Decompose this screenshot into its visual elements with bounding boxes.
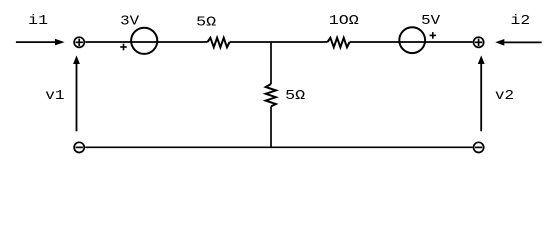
vertical wire lower segment — [270, 106, 272, 147]
svg-text:v2: v2 — [495, 88, 514, 104]
terminal bottom-right (-) — [474, 142, 484, 152]
svg-text:i1: i1 — [28, 13, 48, 29]
terminal top-right (+) — [474, 37, 484, 47]
wire bottom — [85, 146, 473, 148]
svg-text:3V: 3V — [120, 14, 140, 30]
voltage arrow v1 — [73, 55, 80, 131]
resistor R2 10ohm horizontal — [328, 38, 350, 48]
svg-text:1OΩ: 1OΩ — [329, 13, 359, 29]
voltage source V1 3V circle — [131, 28, 157, 54]
wire top: terminal TL to resistor R1 (through 3V source) — [85, 41, 207, 43]
resistor R1 5ohm horizontal — [208, 38, 230, 48]
current arrow i2 — [495, 39, 542, 46]
plus polarity mark of V2 — [430, 32, 437, 39]
terminal top-left (+) — [74, 37, 84, 47]
wire top: R1 to R2 — [230, 41, 328, 43]
svg-text:5Ω: 5Ω — [285, 88, 305, 104]
svg-text:5Ω: 5Ω — [196, 15, 216, 31]
terminal bottom-left (-) — [74, 142, 84, 152]
svg-text:5V: 5V — [421, 13, 441, 29]
wire top: R2 to terminal TR (through 5V source) — [350, 41, 473, 43]
voltage arrow v2 — [478, 55, 485, 131]
svg-text:i2: i2 — [511, 13, 531, 29]
node: vertical wire upper segment — [270, 42, 272, 84]
voltage source V2 5V circle — [399, 27, 425, 53]
current arrow i1 — [16, 39, 65, 46]
plus polarity mark of V1 — [120, 44, 127, 51]
resistor R3 5ohm vertical — [266, 84, 276, 106]
svg-text:v1: v1 — [45, 88, 64, 104]
